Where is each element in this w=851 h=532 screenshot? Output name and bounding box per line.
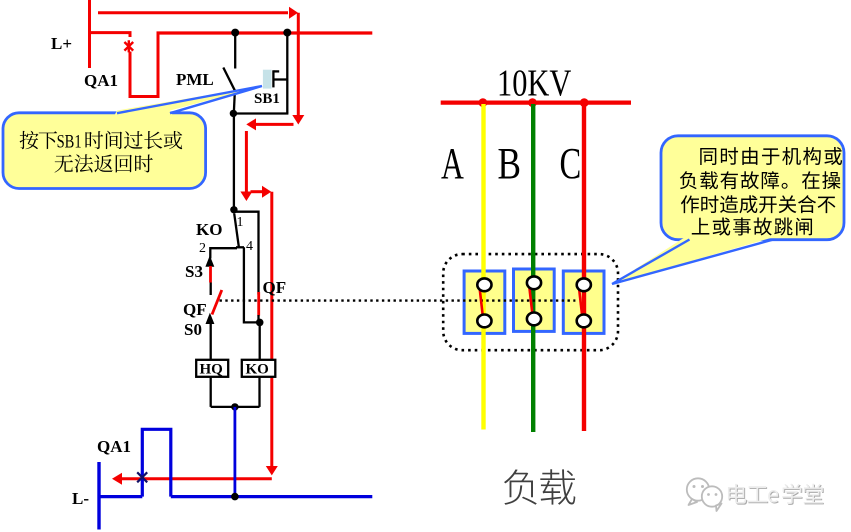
breaker pole phase A blade red (479, 283, 483, 317)
breaker pole phase A top contact (477, 278, 491, 291)
wire L+ bus left segment (88, 33, 130, 37)
mechanical linkage dotted line (220, 299, 576, 301)
terminal 2 bar (210, 248, 237, 258)
svg-text:2: 2 (199, 241, 206, 256)
fault mark X on QA1 (124, 40, 133, 52)
svg-text:SB1: SB1 (57, 133, 82, 153)
node bus tap dot phase C (580, 98, 589, 107)
breaker pole phase C top contact (577, 278, 591, 291)
wire SB1 right branch (286, 34, 288, 114)
wire phase A yellow (481, 104, 485, 430)
callout 2 text line 3 (681, 195, 699, 213)
breaker pole phase C blade red (578, 283, 582, 317)
fault path horizontal to L- with left arrowhead (112, 473, 272, 485)
svg-text:KO: KO (246, 362, 269, 378)
watermark text (729, 485, 747, 505)
svg-text:4: 4 (246, 239, 253, 254)
bus 10KV red (441, 100, 631, 104)
wire main vertical to KO contact (233, 114, 235, 211)
node junction dot above KO coil (256, 319, 264, 327)
svg-text:A: A (441, 140, 464, 188)
contact QF right branch red segment (257, 292, 260, 316)
fault mark X on L- QA1 (137, 472, 147, 482)
fault path down arrowhead (266, 466, 278, 475)
svg-text:SB1: SB1 (254, 91, 280, 107)
node junction dot on L- bus (231, 493, 239, 501)
node bus tap dot phase B (528, 98, 537, 107)
contact QF auxiliary blade red (212, 290, 222, 315)
callout 2 text line 1 (700, 148, 716, 165)
node junction dot on bus at SB1 branch (283, 29, 291, 37)
svg-text:KO: KO (196, 220, 222, 239)
svg-text:C: C (560, 140, 582, 188)
svg-text:S3: S3 (185, 262, 203, 281)
svg-text:10KV: 10KV (497, 62, 571, 104)
breaker pole phase A box (464, 271, 505, 333)
wire phase C red (582, 104, 586, 431)
callout 1 text line 1 (20, 131, 39, 149)
callout 2 tail (612, 237, 776, 285)
svg-text:1: 1 (237, 215, 244, 230)
wire phase B green (531, 104, 535, 432)
node junction dot below PML (230, 110, 237, 117)
flow arrow elbow right (251, 186, 272, 198)
svg-text:QA1: QA1 (97, 437, 131, 456)
svg-text:L-: L- (72, 489, 89, 508)
node junction dot at KO contact top (230, 206, 237, 213)
wire bottom rail (211, 406, 260, 408)
switch S0 arrow (206, 313, 215, 324)
fault path long red vertical (270, 192, 273, 467)
contact PML normally-open (223, 34, 235, 114)
wire L+ supply vertical (88, 0, 91, 68)
breaker pole phase B blade red (529, 281, 533, 315)
breaker pole phase A bottom contact (477, 315, 491, 328)
flow arrow middle vertical (240, 131, 252, 201)
callout 1 tail (113, 86, 262, 118)
svg-text:QA1: QA1 (84, 71, 118, 90)
switch S3 arrow (205, 256, 214, 267)
svg-text:L+: L+ (51, 34, 72, 53)
label load (fuzai) (504, 469, 537, 504)
flow arrow top horizontal (98, 7, 298, 19)
callout 1 text line 2 (55, 155, 73, 173)
svg-text:B: B (498, 138, 521, 188)
svg-text:S0: S0 (184, 320, 202, 339)
wire L+ bus right segment (157, 31, 373, 34)
svg-text:HQ: HQ (200, 362, 224, 378)
svg-text:PML: PML (176, 70, 214, 89)
pushbutton SB1 actuator and contact (273, 70, 287, 87)
callout 2 text line 4 (692, 218, 710, 235)
breaker pole phase B box (514, 269, 555, 331)
wire coil rail to L- blue (233, 407, 236, 497)
wire L- bus left (98, 495, 143, 498)
node junction dot on bus at PML branch (231, 29, 239, 37)
svg-text:QF: QF (183, 300, 207, 319)
wire jog to QF branch (234, 212, 259, 295)
svg-text:QF: QF (263, 278, 287, 297)
wire KO coil bottom (258, 377, 260, 407)
flow arrow right vertical down (292, 13, 304, 125)
breaker pole phase B bottom contact (527, 313, 541, 326)
wire HQ coil bottom (210, 377, 212, 407)
wire junction to KO coil (259, 322, 261, 360)
node junction dot bottom rail (231, 403, 238, 410)
node bus tap dot phase A (479, 98, 488, 107)
breaker pole phase C bottom contact (577, 315, 591, 328)
disconnect switch QA1 (130, 32, 158, 97)
relay contact KO changeover blade (234, 214, 239, 248)
wire S3 to QF (210, 283, 212, 296)
breaker pole phase C box (563, 271, 604, 333)
circuit breaker enclosure dotted (443, 254, 618, 350)
callout box 2 (661, 136, 844, 240)
pushbutton SB1 cap (263, 70, 272, 89)
disconnect switch QA1 bottom pulse (142, 429, 171, 496)
callout box 1 (3, 113, 206, 189)
wire QF branch to junction (257, 315, 259, 322)
terminal 4 bar (236, 246, 244, 248)
wire terminal4 branch down (244, 247, 258, 322)
watermark icon chat bubbles (687, 478, 722, 511)
callout 2 text line 2 (680, 171, 697, 189)
breaker pole phase B top contact (527, 276, 541, 289)
coil HQ box (196, 360, 228, 377)
wire L- bus right (171, 495, 372, 498)
flow arrow left under SB1 (246, 118, 293, 130)
coil KO box (242, 360, 275, 377)
wire S0 to HQ coil (210, 324, 212, 360)
wire S3 red segment (209, 266, 212, 283)
wire L- terminal vertical (97, 462, 100, 530)
wire SB1 bottom horizontal (233, 112, 288, 114)
